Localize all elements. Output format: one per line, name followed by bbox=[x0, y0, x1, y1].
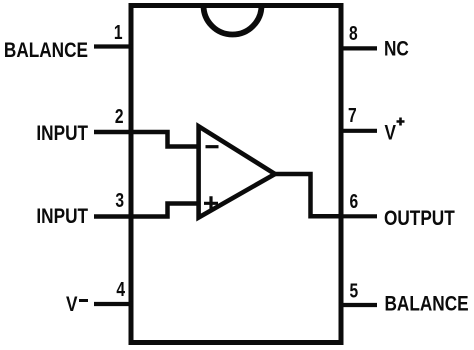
V+ label (pin 7) bbox=[385, 118, 405, 145]
INPUT label (pin 3) bbox=[36, 206, 88, 229]
V- label (pin 4) bbox=[66, 294, 88, 317]
op-amp A1 triangle bbox=[199, 126, 275, 217]
notch (pin-1 orientation mark) bbox=[204, 6, 262, 35]
svg-text:INPUT: INPUT bbox=[36, 206, 88, 229]
pin 6 lead (external) bbox=[341, 214, 377, 218]
pin 4 lead bbox=[94, 302, 133, 306]
NC label (pin 8) bbox=[384, 38, 409, 61]
svg-text:2: 2 bbox=[115, 105, 124, 127]
svg-text:1: 1 bbox=[114, 21, 123, 43]
pin 8 number bbox=[349, 22, 358, 44]
svg-text:NC: NC bbox=[384, 38, 409, 61]
BALANCE label (pin 1) bbox=[4, 40, 88, 63]
pin 3 lead and wire to non-inverting input bbox=[94, 204, 198, 217]
svg-text:5: 5 bbox=[350, 280, 359, 302]
svg-text:OUTPUT: OUTPUT bbox=[384, 208, 455, 231]
BALANCE label (pin 5) bbox=[385, 293, 469, 316]
pin 7 lead bbox=[339, 129, 377, 133]
pin 8 lead bbox=[339, 46, 377, 50]
svg-text:6: 6 bbox=[350, 190, 359, 212]
svg-text:INPUT: INPUT bbox=[36, 123, 88, 146]
pin 4 number bbox=[116, 278, 125, 300]
pin 2 number bbox=[115, 105, 124, 127]
svg-text:V: V bbox=[66, 294, 78, 317]
INPUT label (pin 2) bbox=[36, 123, 88, 146]
wire from op-amp output to pin 6 bbox=[275, 174, 341, 216]
OUTPUT label (pin 6) bbox=[384, 208, 455, 231]
pin 7 number bbox=[348, 104, 357, 126]
inverting input minus symbol bbox=[206, 145, 219, 148]
svg-text:BALANCE: BALANCE bbox=[385, 293, 469, 316]
pin 1 number bbox=[114, 21, 123, 43]
svg-text:7: 7 bbox=[348, 104, 357, 126]
pin 3 number bbox=[115, 189, 124, 211]
pin 2 lead and wire to inverting input bbox=[94, 132, 198, 147]
svg-text:V: V bbox=[385, 122, 397, 145]
svg-text:8: 8 bbox=[349, 22, 358, 44]
pin 5 number bbox=[350, 280, 359, 302]
IC package outline U1 bbox=[131, 6, 341, 343]
svg-text:4: 4 bbox=[116, 278, 125, 300]
pin 6 number bbox=[350, 190, 359, 212]
pin 1 lead bbox=[94, 44, 133, 48]
svg-text:BALANCE: BALANCE bbox=[4, 40, 88, 63]
non-inverting input plus symbol bbox=[204, 196, 218, 210]
svg-text:3: 3 bbox=[115, 189, 124, 211]
pin 5 lead bbox=[339, 303, 377, 307]
